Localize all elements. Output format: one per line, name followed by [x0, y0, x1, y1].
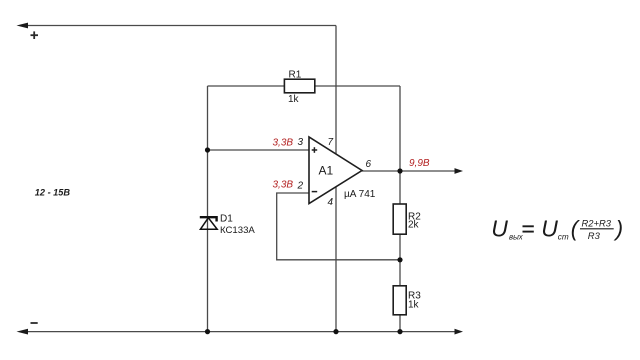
svg-text:D1: D1 [220, 214, 233, 225]
svg-text:(: ( [571, 216, 581, 241]
svg-text:R1: R1 [289, 70, 302, 81]
svg-text:U: U [491, 216, 508, 242]
svg-text:): ) [613, 216, 623, 241]
svg-text:R2+R3: R2+R3 [582, 218, 612, 229]
svg-text:3,3В: 3,3В [273, 137, 294, 148]
svg-text:4: 4 [328, 197, 334, 208]
svg-text:2k: 2k [408, 220, 420, 231]
svg-text:вых: вых [509, 232, 524, 241]
svg-text:A1: A1 [319, 164, 334, 178]
svg-text:12 - 15В: 12 - 15В [35, 188, 71, 198]
svg-text:R3: R3 [588, 230, 601, 241]
svg-text:7: 7 [328, 137, 334, 148]
svg-text:U: U [541, 216, 558, 242]
svg-text:1k: 1k [288, 94, 300, 105]
svg-text:3: 3 [298, 137, 304, 148]
svg-text:ст: ст [558, 232, 569, 241]
svg-text:µA 741: µA 741 [344, 189, 376, 200]
svg-text:КС133А: КС133А [220, 225, 255, 236]
svg-text:2: 2 [297, 181, 304, 192]
svg-text:6: 6 [366, 159, 372, 170]
svg-text:3,3В: 3,3В [273, 179, 294, 190]
svg-text:1k: 1k [408, 300, 420, 311]
svg-text:9,9В: 9,9В [409, 158, 430, 169]
